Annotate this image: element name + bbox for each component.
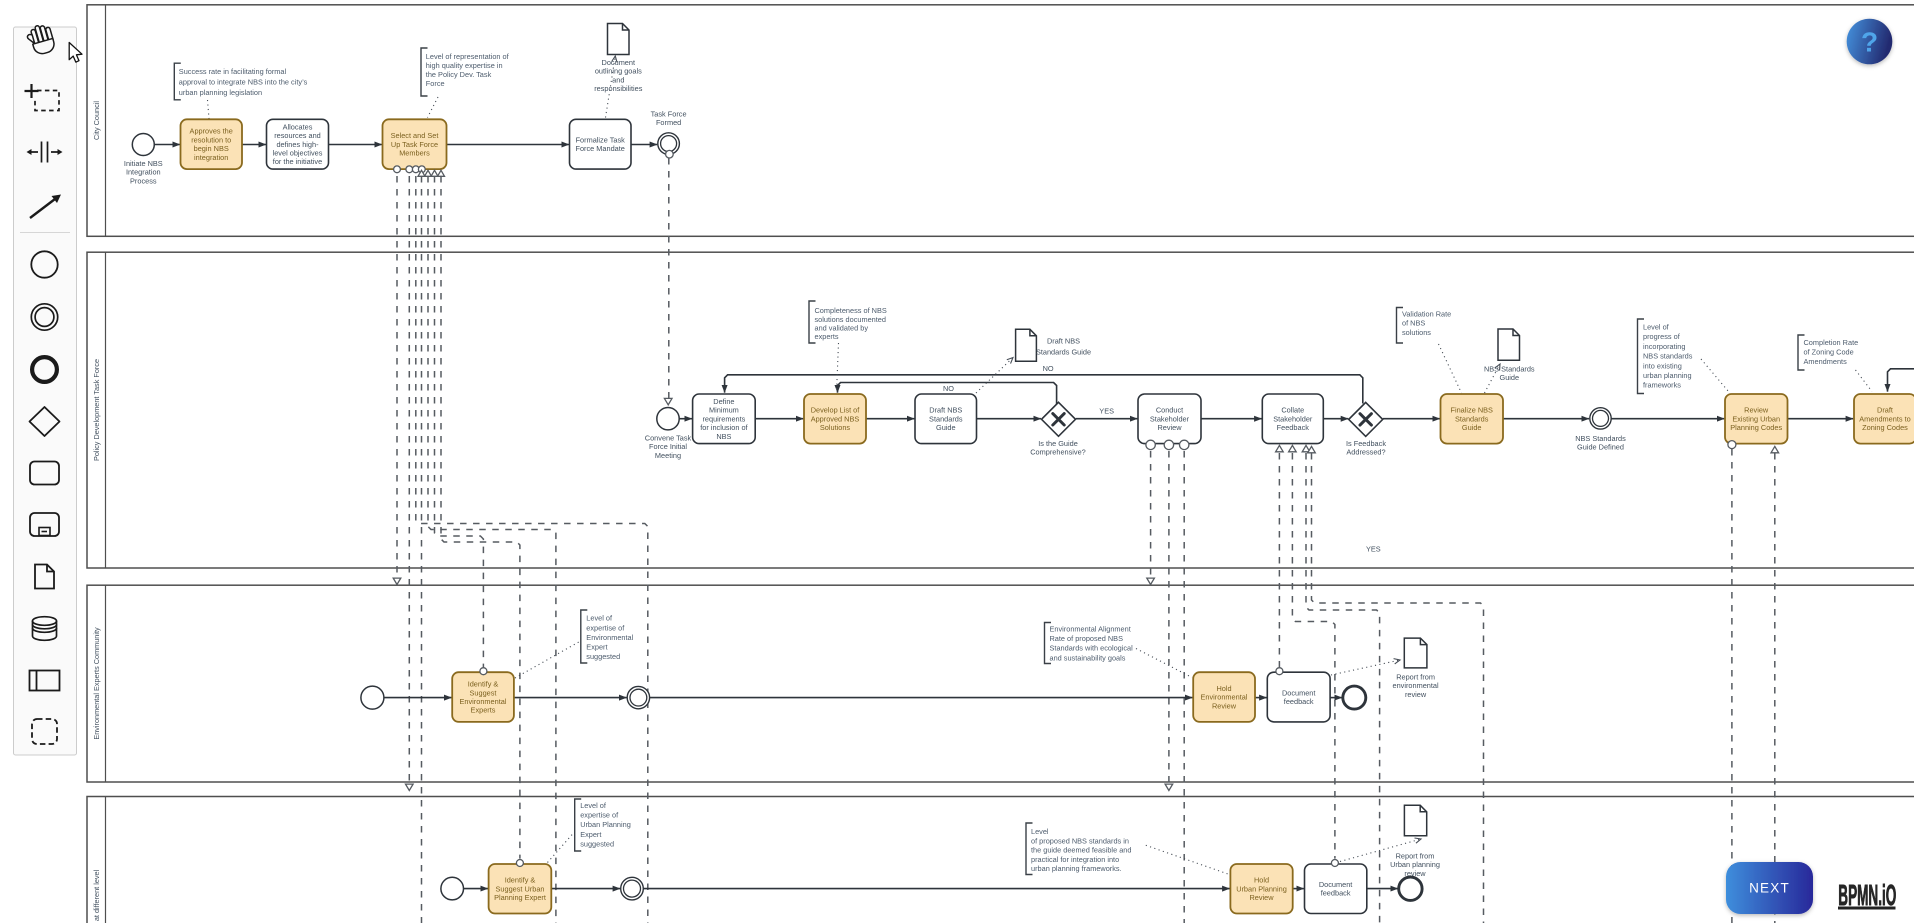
wire sequence flow Draft to gateway Is the Guide Comprehensive xyxy=(977,418,1042,420)
message markers under Review Codes xyxy=(1728,441,1779,453)
message flow Conduct Review to Environmental Experts pool xyxy=(1147,451,1155,585)
palette start event icon xyxy=(31,251,57,277)
message flow to Identify Environmental Experts task xyxy=(435,176,484,667)
wire sequence flow gateway YES to Conduct Review xyxy=(1076,418,1138,420)
annotation Level of expertise of Urban Planning Expert xyxy=(575,799,631,851)
association annotation to Develop task xyxy=(837,343,839,393)
message flow via x1483 off-canvas xyxy=(1312,453,1484,923)
pool Urban Planning Experts at different level xyxy=(87,797,1914,923)
wire loop NO from gateway1 back to Develop task xyxy=(838,383,1057,405)
svg-text:NO: NO xyxy=(1043,364,1054,373)
annotation Completion Rate of Zoning Code Amendments xyxy=(1798,335,1858,370)
intermediate event Task Force Formed xyxy=(651,110,687,159)
svg-text:Documentfeedback: Documentfeedback xyxy=(1282,688,1315,706)
wire sequence flow Hold to Document feedback 3 xyxy=(1255,697,1267,699)
gateway Is Feedback Addressed xyxy=(1346,402,1386,456)
palette task icon xyxy=(30,462,59,485)
palette global connect tool xyxy=(30,195,61,219)
start event lane3 xyxy=(361,686,384,709)
annotation Environmental Alignment Rate xyxy=(1045,623,1134,664)
data object Report from Urban planning review xyxy=(1404,805,1426,836)
palette end event icon xyxy=(32,357,57,382)
pool Policy Development Task Force xyxy=(87,252,1914,568)
wire sequence flow start3 to Identify Experts xyxy=(384,697,452,699)
message flow Select Task Force to Urban Planning pool xyxy=(406,176,414,791)
wire sequence flow Define to Develop xyxy=(755,418,803,420)
end event lane4 xyxy=(1399,877,1422,900)
wire sequence flow Review to Draft Amendments xyxy=(1788,418,1854,420)
palette separator xyxy=(20,232,70,234)
wire sequence flow Identify to intermediate3 xyxy=(514,697,627,699)
svg-text:Environmental Experts Communit: Environmental Experts Community xyxy=(92,627,101,740)
association annotation to Finalize task xyxy=(1439,344,1462,393)
task Select and Set Up Task Force Members xyxy=(383,119,447,169)
svg-text:Is the GuideComprehensive?: Is the GuideComprehensive? xyxy=(1030,439,1086,457)
message flow Review Codes x1774 off-canvas xyxy=(1774,453,1776,923)
task Review Existing Urban Planning Codes xyxy=(1725,394,1788,444)
wire sequence flow Allocates to Select xyxy=(329,144,383,146)
wire sequence flow Approves to Allocates xyxy=(242,144,266,146)
association annotation to Hold Urban Planning Review xyxy=(1146,845,1228,874)
svg-text:NO: NO xyxy=(943,384,954,393)
wire sequence flow intermediate3 to Hold Environmental Review xyxy=(650,697,1193,699)
association annotation to Hold Environmental Review xyxy=(1136,649,1192,678)
svg-text:Is FeedbackAddressed?: Is FeedbackAddressed? xyxy=(1346,439,1386,457)
message flow Select Task Force to Environmental Experts pool xyxy=(393,176,401,585)
task Hold Environmental Review xyxy=(1193,672,1255,722)
wire sequence flow start4 to Identify Urban Expert xyxy=(464,888,489,890)
task Identify and Suggest Environmental Experts xyxy=(452,668,514,722)
wire sequence flow Document feedback to end4 xyxy=(1367,888,1398,890)
message markers under Select task xyxy=(394,166,445,176)
pool City Council xyxy=(87,5,1914,237)
task Allocates resources and defines high-level objectives xyxy=(267,119,329,169)
annotation Level of proposed NBS standards feasible xyxy=(1026,823,1131,875)
wire sequence flow start to Approves task xyxy=(154,144,180,146)
svg-text:NEXT: NEXT xyxy=(1749,881,1790,896)
association Formalize to Document xyxy=(606,56,616,118)
start event Initiate NBS Integration Process xyxy=(124,134,163,186)
palette data object icon xyxy=(35,565,54,589)
message flow Conduct Review x1184 off-canvas xyxy=(1183,451,1185,923)
message flow via x648 down off-canvas xyxy=(416,176,648,923)
task Finalize NBS Standards Guide xyxy=(1441,394,1504,444)
svg-text:City Council: City Council xyxy=(92,101,101,140)
wire sequence flow event to Review Codes xyxy=(1612,418,1725,420)
message flow via x1379 off-canvas xyxy=(1306,453,1380,923)
annotation Validation Rate of NBS solutions xyxy=(1397,308,1452,344)
wire sequence flow Convene to Define xyxy=(679,418,692,420)
message flow Review Codes x1731 off-canvas xyxy=(1731,449,1733,923)
association Document feedback to Report xyxy=(1331,660,1400,675)
palette data store icon xyxy=(33,617,57,641)
svg-text:YES: YES xyxy=(1366,545,1381,554)
association Draft task to data object xyxy=(976,358,1013,394)
palette gateway icon xyxy=(30,407,60,436)
wire loop NO from gateway2 back to Define task xyxy=(725,375,1363,404)
wire sequence flow Document feedback to end3 xyxy=(1330,697,1342,699)
task Identify and Suggest Urban Planning Expert xyxy=(489,860,552,914)
palette space tool xyxy=(27,142,63,163)
association annotation to Approves task xyxy=(208,100,210,119)
wire sequence flow Finalize to NBS Standards Guide Defined xyxy=(1503,418,1589,420)
task Conduct Stakeholder Review xyxy=(1138,394,1201,444)
palette hand tool xyxy=(25,23,56,57)
palette subprocess icon xyxy=(30,513,59,536)
start event Convene Task Force Initial Meeting xyxy=(645,408,692,460)
svg-text:NBS StandardsGuide Defined: NBS StandardsGuide Defined xyxy=(1575,434,1626,452)
svg-text:Documentfeedback: Documentfeedback xyxy=(1319,880,1352,898)
association annotation to Select task xyxy=(428,97,439,118)
svg-text:Formalize TaskForce Mandate: Formalize TaskForce Mandate xyxy=(575,135,625,153)
wire sequence flow Select to Formalize xyxy=(447,144,570,146)
message flow Document feedback env to Collate Feedback xyxy=(1278,453,1280,667)
svg-text:Environmental AlignmentRate of: Environmental AlignmentRate of proposed … xyxy=(1050,624,1134,662)
task Formalize Task Force Mandate xyxy=(570,119,632,169)
help button xyxy=(1847,19,1893,65)
message flow Conduct Review to Urban Planning pool xyxy=(1165,451,1173,791)
svg-text:Policy Development Task Force: Policy Development Task Force xyxy=(92,359,101,461)
wire sequence flow Hold to Document feedback 4 xyxy=(1293,888,1304,890)
palette participant icon xyxy=(30,671,60,691)
association annotation to Draft Amendments task xyxy=(1856,370,1873,392)
palette group icon xyxy=(32,719,57,744)
wire sequence flow intermediate4 to Hold Urban Planning Review xyxy=(643,888,1229,890)
wire sequence flow Conduct to Collate xyxy=(1201,418,1262,420)
annotation Level of progress of incorporating NBS standards xyxy=(1638,319,1693,394)
association Identify task to annotation xyxy=(515,641,581,678)
intermediate event lane3 xyxy=(627,686,649,708)
task Develop List of Approved NBS Solutions xyxy=(804,394,866,444)
task Document feedback lane4 xyxy=(1305,860,1367,914)
svg-text:?: ? xyxy=(1861,27,1878,58)
task Document feedback lane3 xyxy=(1267,668,1330,722)
palette lasso tool xyxy=(25,84,60,111)
intermediate event NBS Standards Guide Defined xyxy=(1575,408,1626,452)
task Collate Stakeholder Feedback xyxy=(1262,394,1323,444)
wire sequence flow Identify to intermediate4 xyxy=(551,888,620,890)
gateway Is the Guide Comprehensive xyxy=(1030,402,1086,456)
message markers under Conduct Review xyxy=(1146,440,1189,449)
task Hold Urban Planning Review xyxy=(1230,864,1292,914)
task Draft NBS Standards Guide xyxy=(915,394,977,444)
BPMN.iO logo xyxy=(1838,879,1896,911)
mouse cursor xyxy=(69,43,82,63)
annotation Level of expertise of Environmental Expert xyxy=(581,610,634,663)
message flow Task Force Formed to Convene Meeting xyxy=(664,158,672,405)
wire sequence flow Formalize to Task Force Formed xyxy=(631,144,657,146)
association annotation to Review task xyxy=(1701,359,1729,392)
data object NBS Standards Guide xyxy=(1498,329,1520,360)
message flow x421.5 down off-canvas xyxy=(421,176,423,923)
message markers under Collate Feedback xyxy=(1276,445,1316,452)
message flow to Identify Urban Planning Expert task xyxy=(441,176,520,859)
task Draft Amendments to Zoning Codes xyxy=(1854,394,1914,444)
association Identify urban task to annotation xyxy=(548,833,574,863)
pool Environmental Experts Community xyxy=(87,585,1914,782)
palette container xyxy=(14,27,77,755)
message flow via x556 down off-canvas xyxy=(428,176,556,923)
svg-text:Urban Planning Experts at diff: Urban Planning Experts at different leve… xyxy=(92,869,101,923)
start event lane4 xyxy=(441,877,464,900)
annotation Success rate in facilitating formal approval xyxy=(174,63,307,100)
data object Draft NBS Standards Guide xyxy=(1016,329,1037,361)
data object Document outlining goals and responsibilities xyxy=(608,24,630,55)
intermediate event lane4 xyxy=(621,877,644,900)
task Define Minimum requirements for inclusion of NBS xyxy=(693,394,756,444)
annotation Level of representation of high quality expertise xyxy=(421,48,510,96)
end event lane3 xyxy=(1343,686,1366,709)
svg-text:Task ForceFormed: Task ForceFormed xyxy=(651,110,687,128)
wire incoming from right into Draft Amendments top xyxy=(1888,369,1914,392)
wire sequence flow Collate to gateway Is Feedback Addressed xyxy=(1323,418,1348,420)
palette intermediate event icon xyxy=(31,304,57,330)
association Document feedback to Report urban xyxy=(1340,839,1421,862)
svg-text:Approves theresolution tobegin: Approves theresolution tobegin NBSintegr… xyxy=(190,127,233,162)
data object Report from environmental review xyxy=(1404,638,1427,668)
svg-text:YES: YES xyxy=(1099,407,1114,416)
wire sequence flow gateway to Finalize xyxy=(1383,418,1440,420)
task Approves the resolution to begin NBS integration xyxy=(181,119,243,169)
annotation Completeness of NBS solutions xyxy=(809,301,887,343)
association Finalize to NBS Standards Guide object xyxy=(1485,364,1501,393)
message flow Document feedback urban to Collate Feedback xyxy=(1292,453,1335,859)
NEXT button xyxy=(1726,862,1813,914)
wire sequence flow Develop to Draft xyxy=(866,418,914,420)
